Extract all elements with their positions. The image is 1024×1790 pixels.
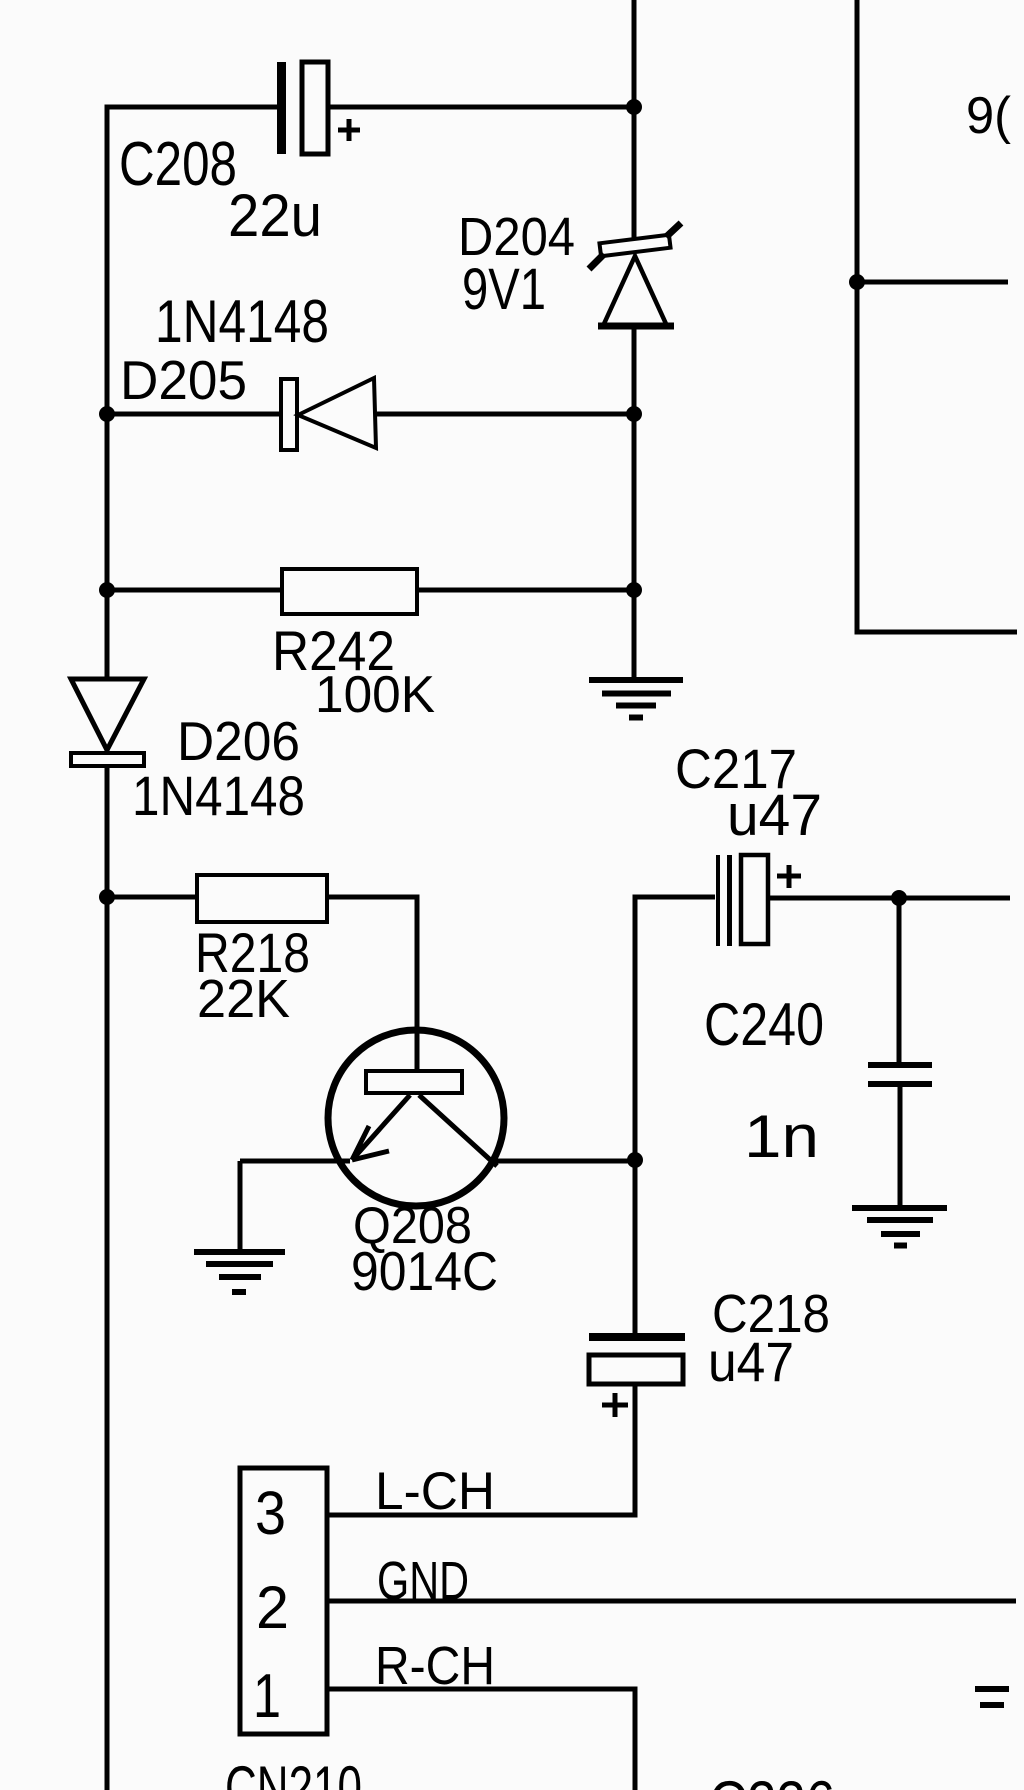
svg-text:3: 3 [255, 1479, 286, 1547]
svg-text:9V1: 9V1 [462, 257, 546, 322]
svg-text:D205: D205 [120, 349, 247, 411]
svg-text:C208: C208 [119, 130, 237, 199]
svg-text:C240: C240 [704, 991, 824, 1058]
svg-text:R-CH: R-CH [375, 1636, 495, 1696]
svg-text:u47: u47 [727, 783, 822, 848]
svg-text:9(: 9( [966, 87, 1012, 145]
svg-text:CN210: CN210 [225, 1754, 362, 1790]
svg-text:1: 1 [253, 1662, 281, 1731]
svg-text:D206: D206 [177, 710, 300, 772]
svg-text:2: 2 [256, 1574, 289, 1641]
svg-text:1n: 1n [744, 1103, 819, 1170]
svg-text:22u: 22u [228, 182, 322, 249]
svg-text:1N4148: 1N4148 [155, 288, 329, 355]
svg-text:u47: u47 [708, 1330, 794, 1393]
svg-text:L-CH: L-CH [375, 1462, 495, 1521]
svg-text:100K: 100K [315, 666, 435, 724]
svg-text:C226: C226 [709, 1769, 835, 1790]
svg-text:22K: 22K [197, 969, 290, 1029]
svg-text:GND: GND [377, 1551, 469, 1611]
svg-text:9014C: 9014C [351, 1240, 498, 1302]
svg-text:1N4148: 1N4148 [132, 764, 305, 827]
